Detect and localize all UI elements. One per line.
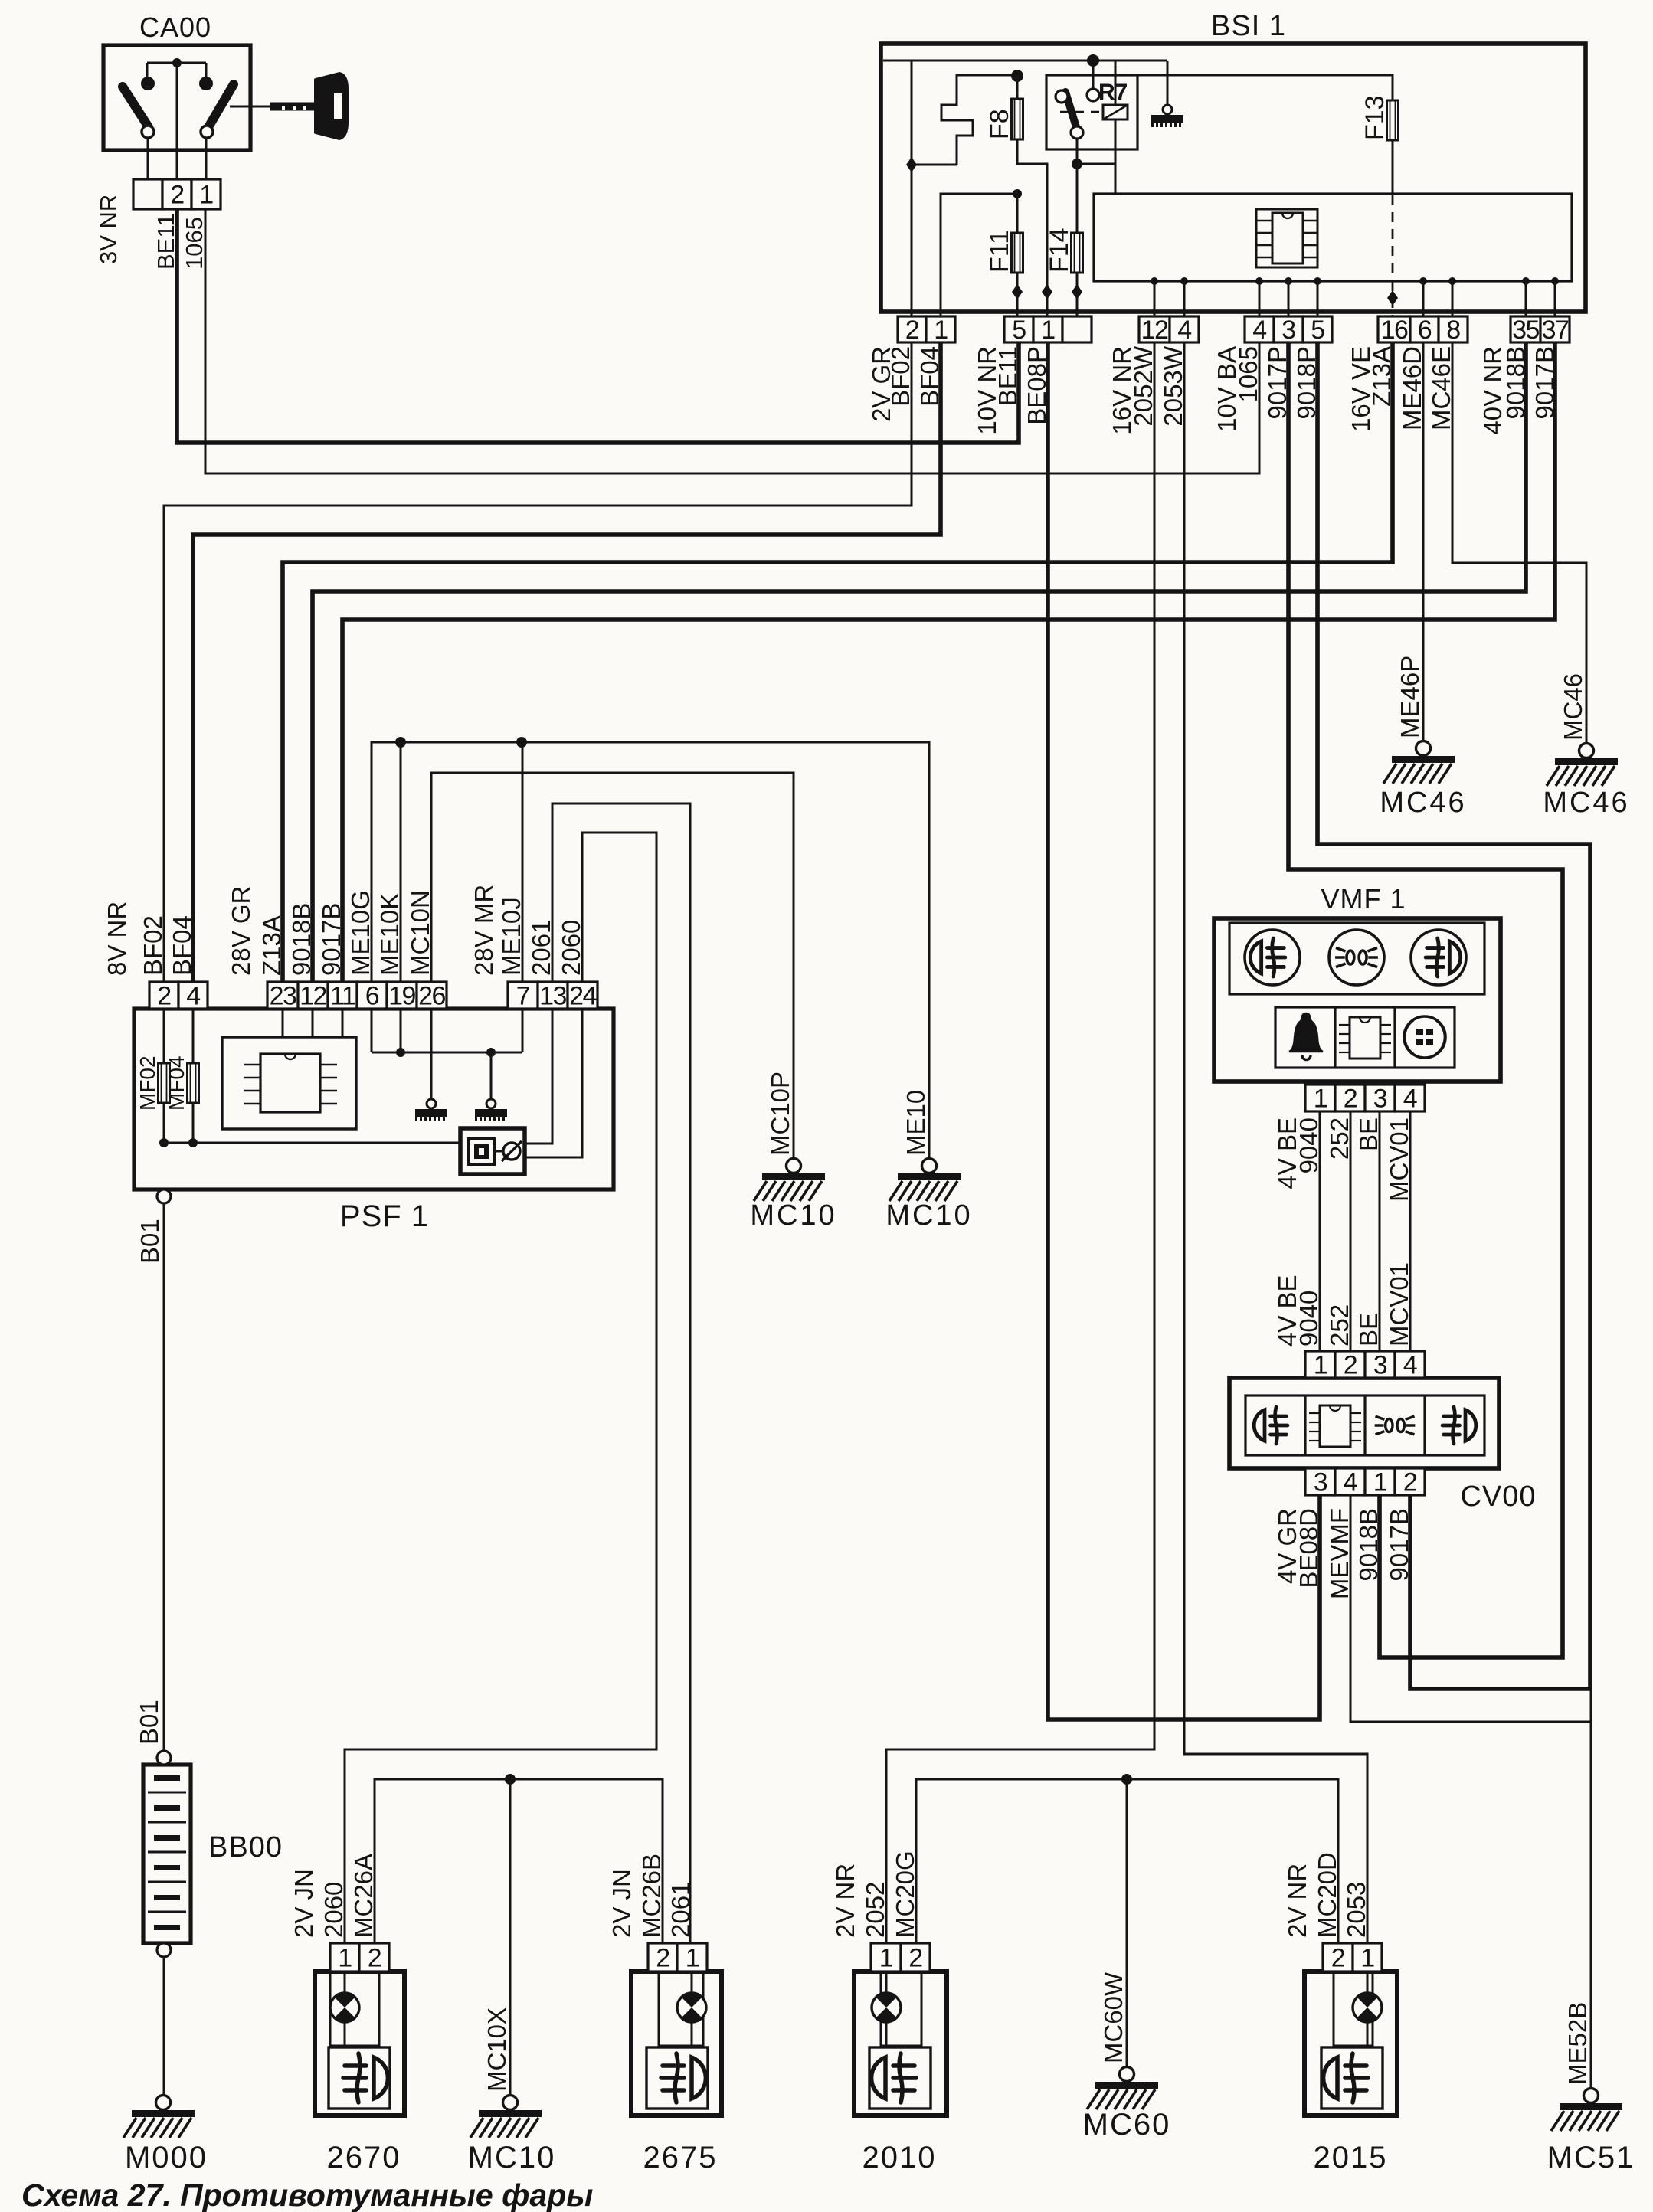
- svg-text:28V MR: 28V MR: [470, 885, 498, 976]
- svg-text:2052W: 2052W: [1129, 345, 1157, 426]
- svg-text:1: 1: [199, 181, 213, 210]
- svg-text:MC60: MC60: [1083, 2108, 1171, 2142]
- svg-text:4: 4: [1403, 1351, 1417, 1380]
- svg-text:2V JN: 2V JN: [607, 1869, 636, 1938]
- svg-text:MC60W: MC60W: [1099, 1971, 1128, 2063]
- svg-text:3: 3: [1281, 316, 1295, 345]
- svg-text:13: 13: [539, 982, 566, 1011]
- svg-text:F14: F14: [1045, 227, 1074, 273]
- svg-text:BE: BE: [1354, 1117, 1383, 1151]
- svg-text:4: 4: [1177, 316, 1191, 345]
- svg-text:CA00: CA00: [139, 11, 211, 43]
- svg-text:1: 1: [934, 316, 948, 345]
- svg-text:252: 252: [1325, 1117, 1353, 1160]
- svg-text:B01: B01: [136, 1219, 164, 1264]
- svg-text:6: 6: [1418, 316, 1432, 345]
- svg-text:3: 3: [1373, 1085, 1387, 1114]
- svg-text:F11: F11: [985, 230, 1014, 273]
- svg-text:BSI 1: BSI 1: [1211, 10, 1286, 42]
- svg-text:BE: BE: [1354, 1313, 1383, 1347]
- svg-text:9040: 9040: [1295, 1117, 1323, 1173]
- svg-text:ME10: ME10: [902, 1090, 930, 1156]
- svg-text:1: 1: [1373, 1468, 1387, 1497]
- svg-text:2053W: 2053W: [1159, 345, 1187, 426]
- svg-text:ME46D: ME46D: [1398, 346, 1426, 430]
- svg-text:2: 2: [908, 1944, 922, 1973]
- svg-text:Z13A: Z13A: [1367, 346, 1396, 407]
- svg-text:26: 26: [418, 982, 445, 1011]
- svg-text:9018P: 9018P: [1292, 346, 1321, 419]
- svg-text:MC20D: MC20D: [1313, 1852, 1341, 1938]
- svg-text:12: 12: [1141, 316, 1168, 345]
- svg-text:M000: M000: [125, 2141, 208, 2174]
- svg-text:2: 2: [1344, 1085, 1357, 1114]
- svg-text:9018B: 9018B: [287, 903, 316, 976]
- svg-text:MC51: MC51: [1547, 2141, 1635, 2174]
- svg-text:7: 7: [516, 982, 530, 1011]
- svg-text:9017P: 9017P: [1263, 346, 1291, 419]
- svg-text:ME10G: ME10G: [346, 890, 375, 976]
- svg-text:BE11: BE11: [993, 346, 1022, 406]
- svg-text:MEVMF: MEVMF: [1325, 1508, 1353, 1599]
- svg-text:MC10: MC10: [885, 1199, 972, 1232]
- svg-text:9018B: 9018B: [1354, 1508, 1383, 1581]
- svg-text:MC26B: MC26B: [637, 1854, 666, 1938]
- svg-text:BF04: BF04: [915, 346, 944, 407]
- svg-text:9017B: 9017B: [1385, 1508, 1413, 1581]
- svg-text:F13: F13: [1360, 95, 1390, 140]
- svg-text:MC10P: MC10P: [766, 1072, 794, 1156]
- svg-text:BF04: BF04: [168, 915, 196, 976]
- svg-text:MC46: MC46: [1380, 787, 1466, 819]
- svg-text:8: 8: [1446, 316, 1460, 345]
- svg-text:1: 1: [1314, 1351, 1327, 1380]
- svg-text:Z13A: Z13A: [257, 915, 286, 976]
- svg-text:4: 4: [1252, 316, 1266, 345]
- svg-text:ME10K: ME10K: [375, 893, 404, 976]
- svg-text:3V NR: 3V NR: [95, 195, 122, 264]
- svg-text:2: 2: [905, 316, 919, 345]
- svg-text:MC10: MC10: [468, 2141, 556, 2174]
- svg-text:2010: 2010: [863, 2141, 937, 2174]
- svg-text:VMF 1: VMF 1: [1321, 883, 1406, 915]
- svg-text:2: 2: [368, 1944, 381, 1973]
- svg-text:2015: 2015: [1314, 2141, 1388, 2174]
- svg-text:MC10X: MC10X: [483, 2007, 511, 2092]
- svg-text:2V NR: 2V NR: [831, 1864, 859, 1938]
- svg-text:F8: F8: [985, 109, 1014, 139]
- svg-text:MC10N: MC10N: [406, 890, 434, 976]
- svg-text:2061: 2061: [666, 1882, 695, 1938]
- svg-text:MCV01: MCV01: [1385, 1117, 1413, 1202]
- svg-text:MC10: MC10: [750, 1199, 836, 1232]
- svg-text:9017B: 9017B: [317, 903, 345, 976]
- svg-text:1065: 1065: [1234, 346, 1262, 402]
- svg-text:2053: 2053: [1342, 1882, 1370, 1938]
- svg-text:CV00: CV00: [1460, 1481, 1536, 1513]
- svg-text:MC26A: MC26A: [349, 1854, 378, 1938]
- svg-text:2: 2: [1331, 1944, 1345, 1973]
- svg-text:2052: 2052: [861, 1882, 889, 1938]
- svg-text:16: 16: [1381, 316, 1408, 345]
- svg-text:Схема 27. Противотуманные фары: Схема 27. Противотуманные фары: [21, 2178, 593, 2212]
- svg-text:4: 4: [1344, 1468, 1357, 1497]
- svg-text:2675: 2675: [643, 2141, 718, 2174]
- svg-text:2V NR: 2V NR: [1283, 1864, 1311, 1938]
- svg-text:2: 2: [1403, 1468, 1417, 1497]
- svg-text:6: 6: [365, 982, 379, 1011]
- svg-text:2: 2: [656, 1944, 669, 1973]
- svg-text:ME10J: ME10J: [497, 897, 525, 976]
- svg-text:5: 5: [1012, 316, 1026, 345]
- svg-text:2060: 2060: [557, 920, 585, 976]
- svg-text:MF04: MF04: [165, 1055, 188, 1111]
- svg-text:BF02: BF02: [886, 346, 915, 407]
- svg-text:9017B: 9017B: [1530, 346, 1559, 419]
- svg-text:ME46P: ME46P: [1396, 656, 1424, 738]
- svg-text:1: 1: [879, 1944, 893, 1973]
- svg-text:2061: 2061: [527, 920, 555, 976]
- svg-text:3: 3: [1314, 1468, 1327, 1497]
- svg-text:B01: B01: [135, 1700, 163, 1745]
- svg-text:ME52B: ME52B: [1563, 2002, 1592, 2085]
- svg-text:MCV01: MCV01: [1385, 1262, 1413, 1347]
- svg-text:9040: 9040: [1295, 1291, 1323, 1347]
- svg-text:1: 1: [1041, 316, 1055, 345]
- svg-text:5: 5: [1311, 316, 1324, 345]
- svg-text:1: 1: [338, 1944, 352, 1973]
- svg-text:1065: 1065: [181, 217, 208, 270]
- svg-text:4: 4: [1403, 1085, 1417, 1114]
- svg-text:BF02: BF02: [139, 915, 167, 976]
- svg-text:23: 23: [270, 982, 296, 1011]
- svg-text:35: 35: [1512, 316, 1539, 345]
- svg-text:252: 252: [1325, 1304, 1353, 1347]
- svg-text:MC46E: MC46E: [1427, 346, 1455, 430]
- svg-text:BE11: BE11: [152, 213, 179, 270]
- svg-text:3: 3: [1373, 1351, 1387, 1380]
- svg-text:BE08P: BE08P: [1023, 346, 1051, 425]
- svg-text:4: 4: [186, 982, 200, 1011]
- svg-text:1: 1: [1314, 1085, 1327, 1114]
- svg-text:24: 24: [569, 982, 596, 1011]
- svg-text:28V GR: 28V GR: [227, 886, 255, 976]
- svg-text:2060: 2060: [319, 1882, 348, 1938]
- svg-text:12: 12: [300, 982, 326, 1011]
- svg-text:1: 1: [1360, 1944, 1374, 1973]
- svg-text:MC20G: MC20G: [891, 1850, 919, 1938]
- svg-text:2V JN: 2V JN: [290, 1869, 318, 1938]
- svg-text:9018B: 9018B: [1501, 346, 1530, 419]
- svg-text:MF02: MF02: [136, 1055, 159, 1111]
- svg-text:1: 1: [686, 1944, 699, 1973]
- svg-text:19: 19: [388, 982, 415, 1011]
- svg-text:2: 2: [157, 982, 171, 1011]
- svg-text:11: 11: [330, 982, 355, 1011]
- svg-text:R7: R7: [1098, 80, 1128, 105]
- svg-text:2670: 2670: [327, 2141, 401, 2174]
- svg-text:MC46: MC46: [1559, 673, 1587, 741]
- svg-text:2: 2: [170, 181, 184, 210]
- svg-text:37: 37: [1542, 316, 1569, 345]
- svg-text:BB00: BB00: [208, 1831, 283, 1864]
- svg-text:PSF 1: PSF 1: [340, 1199, 429, 1233]
- svg-text:BE08D: BE08D: [1295, 1508, 1323, 1589]
- svg-text:2: 2: [1344, 1351, 1357, 1380]
- svg-text:8V NR: 8V NR: [103, 901, 131, 976]
- svg-text:MC46: MC46: [1543, 787, 1629, 819]
